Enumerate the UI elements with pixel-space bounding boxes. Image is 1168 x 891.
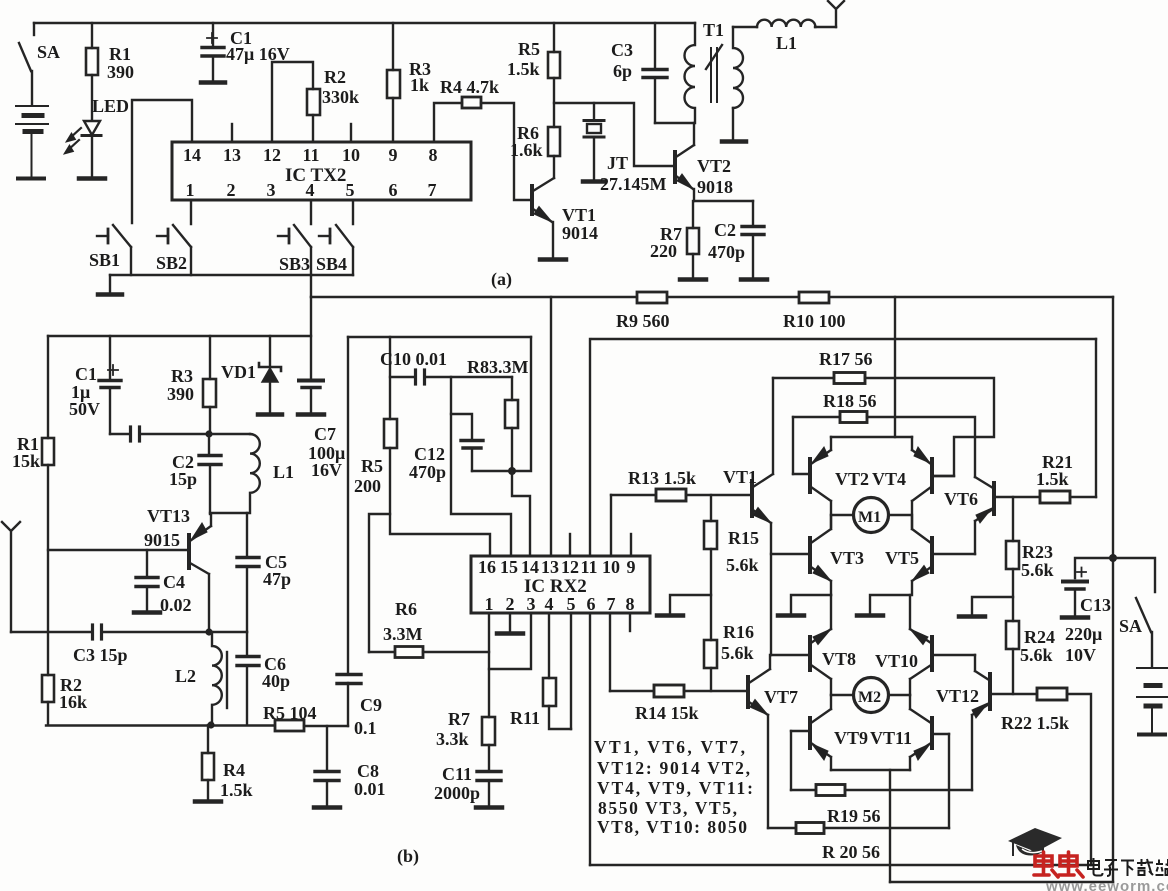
- svg-text:1: 1: [186, 180, 195, 200]
- wire: R16 to R14 line: [710, 668, 712, 691]
- battery GB (part b): [1137, 668, 1167, 735]
- svg-text:R83.3M: R83.3M: [467, 357, 529, 377]
- capacitor C12 470p: [451, 414, 483, 471]
- pushbutton SB2: [157, 200, 191, 275]
- svg-text:R4 4.7k: R4 4.7k: [440, 77, 499, 97]
- resistor R21 1.5k: [1040, 491, 1070, 503]
- watermark: eeworm logo cap: [1008, 828, 1062, 856]
- pushbutton SB4: [319, 200, 353, 275]
- svg-text:VT4: VT4: [872, 469, 906, 489]
- wire: pin 7 to R14 line: [609, 613, 611, 691]
- wire: R6 to VT1 collector: [553, 156, 555, 178]
- wire: VT9 base drop to R19: [790, 731, 792, 790]
- wire: R4b drop: [207, 725, 209, 753]
- svg-text:470p: 470p: [409, 462, 446, 482]
- wire: pin 12 jog to R2: [272, 62, 313, 142]
- resistor R5 104: [275, 720, 304, 731]
- ground: R7: [680, 277, 706, 282]
- svg-text:VD1: VD1: [221, 362, 256, 382]
- svg-text:R5: R5: [518, 39, 540, 59]
- ground: C2 (part a): [741, 277, 767, 282]
- wire: LED anode net to pin 14: [132, 100, 192, 223]
- svg-text:11: 11: [580, 557, 597, 577]
- svg-text:3: 3: [527, 594, 536, 614]
- svg-text:2: 2: [506, 594, 515, 614]
- wire: R18 line: [793, 416, 840, 418]
- ground: C7: [298, 412, 324, 417]
- wire: R18 riser from VT2 base: [792, 417, 794, 474]
- wire: SB3 net down to part-b feed corner: [310, 275, 312, 297]
- svg-text:390: 390: [167, 384, 194, 404]
- ground: C4: [134, 610, 160, 615]
- svg-text:SA: SA: [37, 42, 60, 62]
- capacitor C5 47p: [237, 513, 259, 632]
- svg-text:9014: 9014: [562, 223, 598, 243]
- wire: T1 secondary bottom to ground: [732, 108, 734, 140]
- ground: C8: [314, 805, 340, 810]
- svg-text:SA: SA: [1119, 616, 1142, 636]
- resistor R3 390 (part b): [203, 379, 216, 407]
- svg-text:M1: M1: [858, 509, 881, 526]
- wire: R18 to VT6 collector: [867, 417, 975, 477]
- wire: feed down to part-b rail and C7: [310, 297, 312, 380]
- svg-text:VT1, VT6, VT7,: VT1, VT6, VT7,: [594, 737, 745, 757]
- svg-text:1.5k: 1.5k: [507, 59, 540, 79]
- transistor VT2 8550: [793, 437, 831, 527]
- wire: R7 to ground: [692, 254, 694, 278]
- capacitor C2 15p (part b): [199, 434, 221, 514]
- node: VT13 collector junction: [205, 628, 212, 635]
- svg-text:R18 56: R18 56: [823, 391, 877, 411]
- wire: R5-104 to C9/C8: [304, 725, 348, 727]
- wire: pin 12 stub: [569, 534, 571, 556]
- wire: pin15 riser: [451, 377, 511, 556]
- svg-text:6: 6: [389, 180, 398, 200]
- capacitor C1 47u 16V (part a): [202, 23, 224, 81]
- resistor R4 1.5k (part b): [202, 753, 214, 780]
- inductor L1 (part a): [757, 20, 815, 27]
- wire: pin 11 riser (bridge-frame left edge): [589, 339, 591, 556]
- wire: R24 to R22 line: [1012, 649, 1014, 694]
- resistor R1 15k (part b): [42, 438, 54, 465]
- svg-text:VT7: VT7: [764, 687, 798, 707]
- wire: rail corner down to switch SA: [33, 23, 35, 35]
- wire: R3b from rail: [209, 336, 211, 379]
- svg-text:220μ: 220μ: [1065, 624, 1102, 644]
- battery GB (part a): [16, 106, 48, 179]
- wire: VT3 emitter to VT8 collector: [830, 595, 832, 629]
- svg-text:C11: C11: [442, 764, 472, 784]
- svg-text:R2: R2: [324, 67, 346, 87]
- svg-text:4: 4: [306, 180, 315, 200]
- wire: pin 13 long riser to power line: [550, 297, 552, 556]
- motor M2: [831, 678, 910, 713]
- svg-text:5.6k: 5.6k: [1021, 560, 1054, 580]
- ground: T1 secondary: [722, 139, 746, 144]
- svg-text:1k: 1k: [410, 75, 429, 95]
- svg-text:L1: L1: [273, 462, 294, 482]
- svg-text:12: 12: [561, 557, 579, 577]
- svg-text:7: 7: [428, 180, 437, 200]
- svg-text:2: 2: [227, 180, 236, 200]
- svg-text:16: 16: [478, 557, 496, 577]
- wire: R5-200 bottom to pin16 jog: [390, 448, 490, 556]
- svg-text:VT8, VT10: 8050: VT8, VT10: 8050: [597, 817, 747, 837]
- inductor L2: [212, 632, 227, 725]
- svg-text:VT2: VT2: [835, 469, 869, 489]
- watermark: site name: [1088, 858, 1168, 876]
- capacitor C2 470p (part a): [742, 201, 764, 278]
- wire: M2 emitter rail: [831, 769, 910, 771]
- resistor R13 1.5k: [656, 489, 686, 501]
- svg-text:www.eeworm.com: www.eeworm.com: [1045, 878, 1168, 891]
- wire: VT13 base line: [48, 549, 188, 551]
- wire: VT5 emitter to VT10 collector: [909, 595, 911, 629]
- capacitor C11 2000p: [477, 772, 501, 807]
- resistor R5 200: [384, 419, 397, 448]
- transistor VT1 9014 (bridge): [752, 378, 773, 655]
- ground: R15/R16 node: [657, 595, 711, 616]
- node: R8/C12/pin14 junction: [508, 467, 516, 475]
- wire: C10 to R8 top: [425, 376, 512, 378]
- wire: R23 to R24: [1012, 569, 1014, 621]
- svg-text:VT4, VT9, VT11:: VT4, VT9, VT11:: [597, 778, 753, 798]
- coupling capacitor (base): [110, 427, 209, 441]
- svg-text:R23: R23: [1022, 542, 1053, 562]
- wire: part-b power line to right column: [311, 296, 1113, 298]
- svg-text:47p: 47p: [263, 569, 291, 589]
- resistor R22 1.5k: [1037, 688, 1067, 700]
- antenna (part b): [2, 522, 20, 632]
- capacitor C13 220u 10V: [1063, 568, 1087, 617]
- resistor R6 3.3M: [369, 647, 489, 658]
- resistor R18 56: [840, 412, 867, 423]
- resistor R24 5.6k: [1006, 621, 1019, 649]
- svg-text:VT1: VT1: [562, 205, 596, 225]
- svg-text:VT9: VT9: [834, 728, 868, 748]
- svg-text:C12: C12: [414, 444, 445, 464]
- svg-text:5.6k: 5.6k: [721, 643, 754, 663]
- wire: R23 drop: [1012, 497, 1014, 541]
- svg-text:R17 56: R17 56: [819, 349, 873, 369]
- svg-text:10V: 10V: [1065, 645, 1096, 665]
- IC TX2 body: [172, 142, 471, 200]
- transistor VT11 8550: [910, 695, 949, 770]
- svg-text:R13 1.5k: R13 1.5k: [628, 468, 696, 488]
- svg-text:10: 10: [342, 145, 360, 165]
- wire: pin 8 stub: [629, 613, 631, 631]
- resistor R8 3.3M: [505, 377, 518, 471]
- wire: part-b second rail: [348, 336, 531, 338]
- wire: R13 line: [611, 494, 656, 496]
- svg-text:C8: C8: [357, 761, 379, 781]
- capacitor C9 0.1: [337, 337, 361, 726]
- svg-text:R24: R24: [1024, 627, 1055, 647]
- svg-text:15: 15: [500, 557, 518, 577]
- wire: bottom return line: [890, 881, 1113, 883]
- svg-text:C10 0.01: C10 0.01: [380, 349, 447, 369]
- wire: R1 from rail: [91, 23, 93, 48]
- svg-text:9: 9: [389, 145, 398, 165]
- svg-text:JT: JT: [607, 153, 628, 173]
- resistor R10 100: [799, 292, 829, 303]
- svg-text:R14 15k: R14 15k: [635, 703, 699, 723]
- svg-text:R5 104: R5 104: [263, 703, 317, 723]
- ground: C1 (part a): [201, 80, 225, 85]
- antenna (part a): [828, 1, 844, 27]
- resistor R19 56: [791, 785, 972, 796]
- ground: LED cathode: [79, 176, 105, 181]
- capacitor C8 0.01: [315, 726, 339, 806]
- svg-text:6p: 6p: [613, 61, 632, 81]
- resistor R2 330k: [307, 89, 320, 115]
- wire: VT11 base riser to R20: [948, 734, 950, 828]
- transistor VT2 9018: [675, 123, 694, 201]
- svg-text:LED: LED: [92, 96, 129, 116]
- wire: R22 to bottom rail: [1067, 694, 1091, 865]
- svg-text:13: 13: [541, 557, 559, 577]
- svg-text:(b): (b): [397, 846, 419, 867]
- svg-text:9018: 9018: [697, 177, 733, 197]
- svg-text:C3: C3: [611, 40, 633, 60]
- svg-text:C9: C9: [360, 695, 382, 715]
- switch SA (part a): [19, 43, 32, 105]
- wire: R3 to pin 9: [392, 98, 394, 142]
- wire: L1 to antenna: [815, 26, 836, 28]
- transistor VT7 9014: [748, 655, 770, 828]
- wire: frame right edge down to R21: [1095, 339, 1097, 497]
- svg-text:C13: C13: [1080, 595, 1111, 615]
- svg-text:R22 1.5k: R22 1.5k: [1001, 713, 1069, 733]
- wire: C12 bottom to rail drop: [472, 337, 531, 471]
- wire: VT8 base line: [771, 654, 808, 656]
- IC RX2 body: [471, 556, 650, 613]
- wire: R14 line: [610, 690, 654, 692]
- resistor R7 3.3k: [482, 717, 495, 745]
- svg-text:16k: 16k: [59, 692, 87, 712]
- svg-text:(a): (a): [491, 269, 512, 290]
- wire: bridge frame top edge: [592, 338, 1096, 340]
- wire: pin 2 ground stub: [509, 613, 511, 632]
- svg-text:13: 13: [223, 145, 241, 165]
- svg-text:L2: L2: [175, 666, 196, 686]
- svg-text:0.1: 0.1: [354, 718, 377, 738]
- wire: R1b to base line and R2b: [47, 465, 49, 675]
- wire: pin 8 up and to R4: [434, 103, 462, 142]
- wire: part (a) top supply rail: [34, 22, 695, 24]
- wire: R2 to pin 11: [312, 115, 314, 142]
- svg-text:VT1: VT1: [723, 467, 757, 487]
- ground: VT3-VT8 node: [778, 595, 831, 616]
- svg-text:6: 6: [587, 594, 596, 614]
- ground: C13: [1062, 615, 1088, 620]
- watermark: chongchong red text: [1034, 852, 1083, 877]
- svg-text:390: 390: [107, 62, 134, 82]
- svg-text:C7: C7: [314, 424, 336, 444]
- capacitor C6 40p: [237, 632, 259, 725]
- IC RX2 pin numbers top row: [478, 557, 636, 577]
- wire: C3b to L2/C6 line: [102, 631, 247, 633]
- svg-text:R15: R15: [728, 528, 759, 548]
- wire: R5 from rail: [553, 23, 555, 52]
- svg-text:L1: L1: [776, 33, 797, 53]
- svg-text:3: 3: [267, 180, 276, 200]
- wire: T1 secondary to L1: [733, 26, 757, 28]
- transistor VT13 9015: [189, 514, 211, 632]
- svg-text:2000p: 2000p: [434, 783, 480, 803]
- svg-text:VT5: VT5: [885, 548, 919, 568]
- transistor VT12 9014: [972, 655, 1037, 790]
- svg-text:5: 5: [567, 594, 576, 614]
- svg-text:1.5k: 1.5k: [220, 780, 253, 800]
- resistor R17 56: [834, 373, 865, 384]
- node: L2 bottom junction: [207, 721, 214, 728]
- svg-text:C3 15p: C3 15p: [73, 645, 128, 665]
- svg-text:27.145M: 27.145M: [600, 174, 667, 194]
- resistor R3 1k (part a): [387, 70, 400, 98]
- wire: bridge bottom rail: [590, 864, 1091, 866]
- svg-text:3.3k: 3.3k: [436, 729, 469, 749]
- transistor VT1 9014 (part a): [532, 178, 554, 258]
- resistor R6 1.6k (part a): [548, 127, 560, 156]
- ground: VT1 emitter: [540, 257, 566, 262]
- transistor VT6 9014: [975, 477, 1040, 554]
- transformer T1 secondary: [733, 27, 743, 108]
- transistor type note block: [594, 737, 753, 837]
- svg-text:50V: 50V: [69, 399, 100, 419]
- transistor VT10 8050: [910, 629, 975, 695]
- svg-text:VT8: VT8: [822, 649, 856, 669]
- svg-text:R9 560: R9 560: [616, 311, 670, 331]
- IC TX2 pin numbers bottom row: [186, 180, 437, 200]
- wire: R17 to VT4 base: [865, 378, 994, 476]
- resistor R7 220 (part a): [687, 228, 699, 254]
- resistor R23 5.6k: [1006, 541, 1019, 569]
- wire: R17 line: [773, 377, 834, 379]
- svg-text:SB2: SB2: [156, 253, 187, 273]
- svg-text:5.6k: 5.6k: [726, 555, 759, 575]
- transistor VT8 8050: [810, 629, 831, 695]
- wire: R7b to C11: [488, 745, 490, 771]
- node: C13/SA junction: [1109, 554, 1117, 562]
- wire: VT2 emitter node: [694, 200, 753, 202]
- capacitor C4 0.02: [136, 550, 158, 611]
- wire: junction to pin 14: [512, 471, 530, 556]
- wire: R15 drop: [710, 495, 712, 521]
- wire: pin 5 drop: [570, 613, 572, 729]
- svg-text:10: 10: [602, 557, 620, 577]
- svg-text:14: 14: [521, 557, 539, 577]
- pushbutton SB3: [278, 200, 311, 275]
- svg-text:8550 VT3, VT5,: 8550 VT3, VT5,: [598, 798, 737, 818]
- wire: jog to R6-3.3M riser: [369, 514, 390, 652]
- svg-text:330k: 330k: [322, 87, 359, 107]
- svg-text:14: 14: [183, 145, 201, 165]
- svg-text:47μ 16V: 47μ 16V: [226, 44, 290, 64]
- svg-text:8: 8: [429, 145, 438, 165]
- svg-text:VT12: VT12: [936, 686, 979, 706]
- svg-text:C2: C2: [714, 220, 736, 240]
- transistor VT5 8050: [912, 515, 975, 595]
- svg-text:VT6: VT6: [944, 489, 978, 509]
- resistor R5 1.5k (part a): [548, 52, 560, 78]
- pushbutton SB1: [97, 225, 131, 275]
- svg-text:15p: 15p: [169, 469, 197, 489]
- wire: C3 to VT2 collector node: [655, 122, 694, 124]
- resistor R14 15k: [654, 685, 684, 697]
- transformer T1 primary: [685, 23, 696, 123]
- motor M1: [831, 498, 910, 533]
- svg-text:SB4: SB4: [316, 254, 347, 274]
- svg-text:40p: 40p: [262, 671, 290, 691]
- wire: R11 bottom to pin 5: [549, 706, 571, 729]
- wire: R14 to VT7 base: [684, 690, 748, 692]
- svg-text:SB3: SB3: [279, 254, 310, 274]
- transistor VT3 8050: [771, 515, 831, 595]
- resistor R4 4.7k: [462, 97, 481, 108]
- wire: pin 6 long drop to bottom rail: [589, 613, 591, 865]
- wire: R4 to VT1 base: [481, 103, 531, 200]
- resistor R1 390: [86, 48, 98, 75]
- wire: part-b left column R1 chain: [47, 336, 49, 438]
- resistor R2 16k (part b): [42, 675, 54, 702]
- node: R3b/C2/L1 junction: [205, 430, 212, 437]
- svg-text:R16: R16: [723, 622, 754, 642]
- svg-text:200: 200: [354, 476, 381, 496]
- wire: pin 4 drop to R11: [548, 613, 550, 678]
- svg-text:VT13: VT13: [147, 506, 190, 526]
- wire: junction to SA (part b): [1113, 558, 1155, 592]
- transformer T1 core: [706, 45, 722, 102]
- IC RX2 pin numbers bottom row: [485, 594, 635, 614]
- wire: C10 line: [390, 376, 415, 378]
- transistor VT9 8550: [791, 695, 831, 770]
- svg-text:1: 1: [485, 594, 494, 614]
- zener diode VD1: [259, 336, 281, 413]
- wire: R5-R6 junction: [553, 78, 555, 127]
- wire: power drop to M1 emitter rail: [894, 297, 896, 437]
- capacitor C10 0.01: [416, 370, 425, 384]
- wire: outer right column: [1112, 297, 1114, 882]
- ground: R23/R24 node: [959, 597, 1013, 617]
- svg-text:VT2: VT2: [697, 156, 731, 176]
- wire: pin 10 stub: [350, 124, 352, 142]
- capacitor C7 100u 16V: [299, 381, 323, 414]
- ground: VT5-VT10 node: [857, 595, 910, 616]
- wire: R1 to LED: [91, 75, 93, 120]
- ground: crystal JT: [583, 179, 605, 184]
- wire: R15 to ground node: [710, 549, 712, 640]
- inductor L1 (part b): [209, 434, 260, 513]
- capacitor C3 6p: [643, 23, 667, 123]
- resistor R20 56: [768, 823, 949, 834]
- svg-text:M2: M2: [858, 689, 881, 706]
- svg-text:R3: R3: [171, 366, 193, 386]
- wire: pin 9 stub: [630, 534, 632, 556]
- wire: R2b to bottom line: [47, 702, 49, 725]
- resistor R15 5.6k: [704, 521, 717, 549]
- transistor VT4 8550: [912, 437, 954, 527]
- wire: receiver input line: [11, 631, 92, 633]
- svg-text:VT11: VT11: [870, 728, 912, 748]
- wire: pin 1 drop: [488, 613, 490, 717]
- capacitor C1 1u 50V (part b): [99, 336, 121, 434]
- svg-text:VT10: VT10: [875, 651, 918, 671]
- wire: R3 from rail: [392, 23, 394, 70]
- svg-text:8: 8: [626, 594, 635, 614]
- svg-text:T1: T1: [703, 20, 724, 40]
- svg-text:16V: 16V: [311, 460, 342, 480]
